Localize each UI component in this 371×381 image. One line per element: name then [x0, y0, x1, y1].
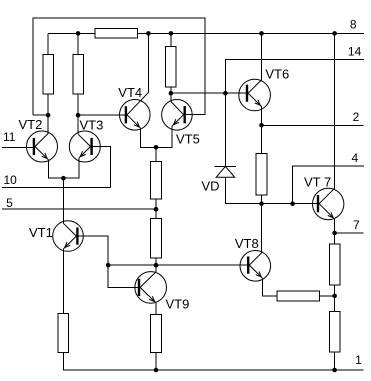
svg-text:11: 11 — [3, 130, 16, 144]
wire pin2 rail — [262, 124, 364, 126]
wire R2 top stub — [77, 33, 79, 54]
wire R9 bottom stub — [155, 353, 157, 371]
svg-text:8: 8 — [350, 18, 357, 32]
wire VT7 emitter to R10 — [334, 219, 336, 244]
wire emitter node down to VT1 collector — [62, 178, 64, 223]
junction R11/pin1 — [332, 368, 337, 373]
junction pin2 node — [259, 123, 264, 128]
junction R2/pin8 — [76, 31, 81, 36]
resistor R3 — [95, 29, 138, 39]
junction R4/pin8 — [169, 31, 174, 36]
wire pin4 down — [293, 166, 364, 204]
svg-text:VT9: VT9 — [166, 296, 190, 311]
transistor VT3 — [69, 131, 100, 162]
wire R12 to right rail — [320, 295, 335, 297]
wire VT8 emitter to R12 — [263, 278, 277, 296]
wire R2 bottom to VT3 collector — [77, 94, 79, 134]
wire R6 bottom to VT9 collector — [155, 258, 157, 272]
svg-text:14: 14 — [348, 45, 362, 59]
junction VT3 collector node — [76, 113, 81, 118]
svg-text:VT4: VT4 — [118, 85, 142, 100]
resistor R1 — [43, 55, 54, 95]
junction VT1 base node — [106, 263, 111, 268]
transistor VT8 — [240, 250, 271, 281]
transistor VT9 — [135, 272, 167, 304]
resistor R7 — [256, 153, 267, 195]
junction R7/VT8 collector node — [259, 201, 264, 206]
junction R6/VT9 collector node — [154, 263, 159, 268]
wire pin14 down to VD cathode — [225, 60, 364, 167]
junction R12 node — [332, 294, 337, 299]
junction VD/pin14/VT6 base — [223, 91, 228, 96]
diode VD — [215, 93, 236, 177]
wire VT3 base down to pin10 — [93, 147, 111, 188]
wire R1 bottom to VT2 collector — [47, 94, 49, 133]
junction R4 bottom/VT6 base — [169, 91, 174, 96]
resistor R11 — [329, 311, 340, 352]
wire junction to R5 top — [155, 147, 157, 161]
wire pin8 rail left — [48, 32, 95, 34]
junction pin7 node — [332, 231, 337, 236]
wire pin10 rail — [2, 186, 111, 188]
junction VT4 col/pin8 — [146, 31, 151, 36]
wire VT4 collector drop — [147, 33, 149, 92]
junction VT2/VT3 emitters — [61, 176, 66, 181]
wire R4 top stub — [170, 33, 172, 46]
wire R4 bottom to VT5 collector — [170, 87, 172, 102]
transistor VT1 — [53, 221, 84, 252]
svg-text:1: 1 — [355, 353, 362, 367]
transistor VT6 — [239, 79, 271, 111]
resistor R2 — [73, 55, 84, 95]
wire VT4 base — [78, 114, 125, 116]
junction R9/pin1 — [154, 368, 159, 373]
wire VT6 emitter to R7 — [261, 107, 263, 154]
resistor R4 — [166, 46, 177, 87]
svg-text:5: 5 — [6, 196, 13, 210]
wire VT7 collector drop — [334, 33, 336, 188]
resistor R10 — [329, 244, 340, 285]
wire R5-R6 link — [155, 199, 157, 219]
wire pin7 rail — [335, 232, 364, 234]
wire base rail to VT8 base — [108, 264, 247, 266]
wire pin11 to VT2 base — [2, 146, 33, 148]
resistor R5 — [151, 162, 162, 200]
junction pin4 node — [290, 201, 295, 206]
resistor R8 — [58, 314, 69, 353]
svg-text:VT2: VT2 — [19, 117, 43, 132]
wire VT5 collector node to VT6 base — [171, 92, 246, 94]
wire pin8 rail right — [138, 32, 364, 34]
wire into VT2 collector node — [33, 114, 48, 116]
wire pin5 rail — [2, 208, 156, 210]
transistor VT2 — [27, 131, 58, 162]
transistor VT4 — [120, 93, 151, 131]
wire R11 bottom stub — [334, 352, 336, 370]
svg-text:VT5: VT5 — [176, 132, 200, 147]
wire R1 top stub — [47, 33, 49, 54]
wire VT4/VT5 emitter junction — [141, 126, 173, 147]
junction pin5 node — [154, 207, 159, 212]
wire VT5 base loop to VT2 collector node — [33, 18, 205, 115]
wire VT2/VT3 emitter junction — [49, 158, 79, 178]
resistor R6 — [151, 219, 162, 259]
junction VT6 col/pin8 — [259, 31, 264, 36]
svg-text:VD: VD — [202, 178, 220, 193]
wire VT1 emitter to R8 — [62, 249, 64, 314]
svg-text:4: 4 — [352, 151, 359, 165]
wire VT6 collector drop — [261, 33, 263, 80]
wire pin1 ground rail — [63, 353, 363, 371]
transistor VT5 — [162, 100, 193, 131]
wire VT9 emitter to R9 — [155, 303, 157, 315]
svg-text:VT8: VT8 — [235, 236, 259, 251]
junction VT4/VT5 emitters — [154, 145, 159, 150]
svg-text:VT 7: VT 7 — [304, 175, 331, 190]
svg-text:VT6: VT6 — [265, 67, 289, 82]
svg-text:10: 10 — [4, 173, 18, 187]
wire R7 bottom to VT8 collector — [261, 195, 263, 253]
wire VD anode to VT7 base — [225, 177, 317, 203]
junction VT2 collector node — [46, 113, 51, 118]
resistor R9 — [151, 315, 162, 353]
svg-text:2: 2 — [353, 110, 360, 124]
junction VT7 col/pin8 — [332, 31, 337, 36]
svg-text:VT3: VT3 — [80, 118, 104, 133]
svg-text:VT1: VT1 — [29, 225, 53, 240]
svg-text:7: 7 — [353, 218, 360, 232]
resistor R12 — [277, 291, 320, 301]
wire R10 to R11 link — [334, 285, 336, 312]
wire VT1 base down to VT9 base — [79, 236, 138, 287]
transistor VT7 — [313, 188, 344, 219]
